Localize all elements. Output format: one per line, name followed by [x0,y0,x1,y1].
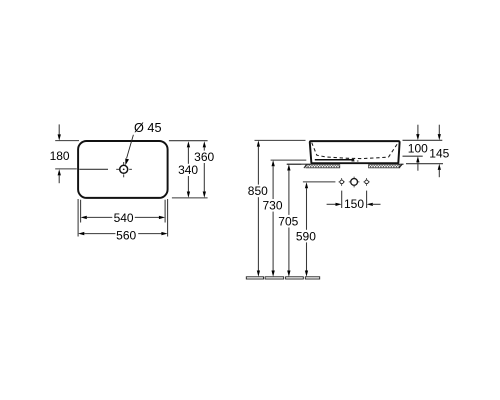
svg-text:100: 100 [408,142,428,156]
dim 145 [429,125,449,178]
dim 340 [178,141,198,198]
hole right fixing [363,178,369,186]
svg-text:360: 360 [194,150,214,164]
svg-text:540: 540 [114,211,134,225]
svg-text:560: 560 [116,228,136,242]
countertop section right (hatched) [369,164,404,168]
basin inner dashed contour [312,143,398,159]
dim 850 [248,140,268,276]
dim 730 [262,160,282,277]
basin plan view outline [78,141,168,198]
dim 145 bottom extension line [406,163,443,165]
dim 590 [296,182,316,277]
label Ø 45 with leader [125,121,161,165]
svg-text:150: 150 [344,197,364,211]
floor bar 2 [265,277,284,279]
holes centerline [303,181,336,183]
floor bar 3 [286,277,304,279]
floor bar 4 [305,277,319,279]
floor bar 1 [246,277,263,279]
dim 560 extension lines [78,199,168,237]
hole left fixing [339,178,345,186]
svg-text:Ø 45: Ø 45 [134,121,162,135]
dim 100-145 top extension line [403,139,443,141]
svg-text:590: 590 [296,229,316,243]
dim 180 [50,124,70,183]
dim 180 extension lines [55,141,79,169]
svg-text:340: 340 [178,163,198,177]
basin inner bottom solid line [315,160,359,161]
dim 850 extension line [255,139,306,141]
dim 100 [408,125,428,171]
dim 100 bottom extension line [403,155,423,157]
svg-text:180: 180 [50,149,70,163]
dim 540 extension lines [81,200,166,223]
dim 360 [194,141,214,198]
dim 705 extension line [287,163,301,165]
svg-text:730: 730 [262,199,282,213]
dim 150 extension lines [342,191,367,208]
dim 560 [78,228,168,242]
hole center (drain outlet) [349,177,360,188]
dim 730 extension line [271,159,307,161]
svg-text:145: 145 [429,147,449,161]
dim 705 [278,164,298,276]
basin side view outline [310,141,400,163]
countertop surface line [287,163,404,165]
svg-text:850: 850 [248,184,268,198]
drain centerline [79,168,108,170]
countertop section left (hatched) [304,165,340,169]
dim 540 [81,211,166,225]
dim 150 [327,197,381,211]
extension lines right of plan [169,141,208,198]
svg-text:705: 705 [278,215,298,229]
drain hole [116,162,132,177]
